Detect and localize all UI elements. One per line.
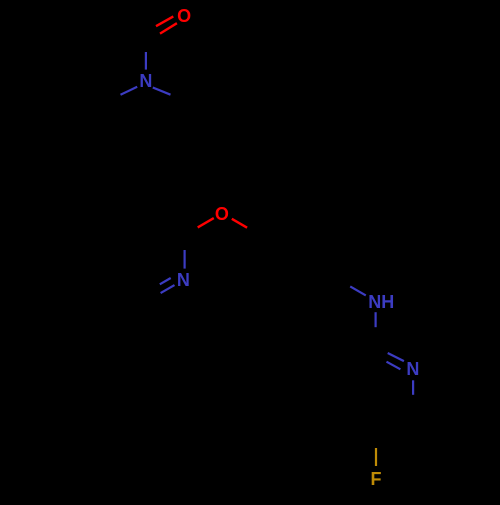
- bond N3-C2py2 amine (blue half, vertical down): [375, 312, 377, 327]
- svg-text:NH: NH: [368, 292, 394, 312]
- bond N1-C6 piperidine (blue half, down-right): [153, 88, 171, 95]
- svg-text:N: N: [406, 359, 419, 379]
- bond N4=C2py2 pyridine double outer line (blue half): [388, 353, 404, 361]
- svg-text:O: O: [215, 204, 229, 224]
- bond N4-C6py2 pyridine (blue half, vertical down): [412, 380, 414, 395]
- bond C5py2-F (gold half, vertical): [375, 448, 377, 466]
- bond C7=O1 double bond lower line (red half): [160, 23, 177, 33]
- svg-text:O: O: [177, 6, 191, 26]
- bond N1-C7 (blue half, vertical): [145, 52, 147, 70]
- bond N2=C6py pyridine double outer line (blue half): [161, 285, 175, 293]
- bond N1-C2 piperidine (blue half, down-left): [121, 87, 138, 95]
- bond N4=C2py2 pyridine double inner line (blue half): [387, 362, 401, 370]
- bond O2-C2py ether (red half, down-left): [198, 218, 214, 227]
- svg-text:N: N: [177, 270, 190, 290]
- bond N3-C4ph amine (blue half, up-left): [350, 286, 366, 295]
- bond N2-C2py pyridine (blue half, vertical up): [184, 250, 186, 269]
- svg-text:N: N: [139, 71, 152, 91]
- bond O2-C1ph ether (red half, down-right): [232, 219, 247, 228]
- svg-text:F: F: [371, 469, 382, 489]
- bond N2=C6py pyridine double inner line (blue half): [160, 278, 171, 284]
- bond C7=O1 double bond upper line (red half): [156, 16, 173, 26]
